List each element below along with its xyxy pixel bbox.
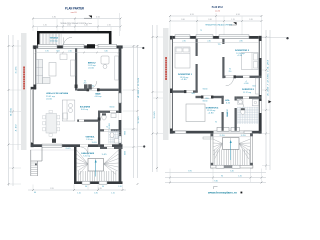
- door swing baie2: [237, 101, 244, 108]
- svg-text:DORMITOR 4: DORMITOR 4: [206, 107, 219, 110]
- svg-text:3.95: 3.95: [188, 170, 192, 172]
- bottom cyan dims under stair left plan: [34, 186, 122, 195]
- stair bay bottom wall right plan: [211, 165, 253, 168]
- svg-text:3.30 / 2.05 / 4.20: 3.30 / 2.05 / 4.20: [268, 60, 270, 96]
- desk birou: [101, 56, 109, 69]
- svg-text:80/210: 80/210: [110, 107, 115, 109]
- top dimension line row 1 left plan: [32, 16, 121, 19]
- svg-text:4.10: 4.10: [16, 125, 18, 132]
- bottom dimension lines right plan: [165, 170, 266, 183]
- stair hall stub wall right plan: [203, 137, 213, 139]
- interior dim line right plan: [173, 41, 259, 43]
- stair bay left wall right plan: [211, 134, 214, 169]
- scale note right: [215, 10, 220, 12]
- stair bay right wall right plan: [250, 134, 253, 169]
- svg-text:3.25: 3.25: [16, 67, 18, 74]
- svg-text:2.80: 2.80: [239, 41, 242, 43]
- svg-text:80: 80: [206, 98, 209, 100]
- title PLAN ETAJ: [212, 5, 223, 9]
- stair bay bottom wall left plan: [74, 181, 123, 184]
- armchair living: [60, 54, 67, 60]
- title PLAN PARTER: [65, 6, 85, 10]
- bracket mark right plan: [214, 187, 218, 190]
- fireplace dark block: [52, 139, 56, 143]
- svg-text:BUCATARIE: BUCATARIE: [80, 105, 91, 108]
- svg-text:2.40: 2.40: [207, 41, 210, 43]
- middle horizontal wall band left plan: [31, 144, 123, 147]
- svg-text:60: 60: [253, 86, 256, 88]
- interior wall hall-dorm4 horizontal: [196, 96, 224, 99]
- red vertical label left plan: [23, 67, 25, 90]
- door swing dorm3: [226, 78, 234, 86]
- terrace door swing arc: [64, 37, 73, 46]
- extra cyan dims right plan: [192, 44, 256, 100]
- exterior stair left plan: [31, 147, 42, 176]
- bed dormitor1: [175, 47, 190, 68]
- label birou: [88, 62, 96, 69]
- node dot left plan: [123, 47, 145, 49]
- label dormitor1: [178, 74, 193, 81]
- svg-text:1.15: 1.15: [111, 193, 115, 195]
- label casa scarii: [81, 152, 94, 158]
- staircase right plan: [213, 138, 250, 166]
- svg-text:4.50: 4.50: [236, 14, 240, 16]
- top exterior wall right plan: [170, 35, 262, 39]
- svg-text:±0.00: ±0.00: [88, 67, 94, 69]
- hall small dims: [229, 69, 232, 74]
- interior dimension line left plan: [35, 51, 120, 54]
- svg-text:6.35: 6.35: [226, 102, 230, 104]
- svg-text:3.95: 3.95: [50, 188, 54, 190]
- label hol etaj: [225, 100, 230, 104]
- left dimension columns right plan: [152, 25, 158, 172]
- top dimension line row 2 left plan: [32, 24, 121, 27]
- svg-text:PLAN PARTER: PLAN PARTER: [65, 6, 85, 10]
- interior wall x99 vertical: [98, 111, 101, 147]
- svg-text:2.10: 2.10: [68, 51, 71, 53]
- shower baie2: [252, 99, 258, 106]
- svg-text:1.85: 1.85: [249, 19, 253, 21]
- svg-text:7.20 mp: 7.20 mp: [83, 155, 90, 157]
- svg-text:1.20: 1.20: [43, 24, 47, 26]
- toilet baie2: [241, 108, 245, 114]
- svg-text:90: 90: [221, 175, 223, 177]
- top dimension line row 2 right plan: [169, 19, 262, 22]
- annotation terasa text left plan: [60, 22, 92, 25]
- interior wall y130 horizontal: [98, 129, 119, 131]
- wardrobe birou strip: [115, 56, 119, 80]
- interior wall y111 horizontal: [98, 111, 119, 113]
- stair bay top dim right plan: [214, 135, 251, 137]
- label dormitor3: [242, 83, 255, 94]
- svg-text:1.00: 1.00: [92, 142, 97, 144]
- svg-text:70: 70: [106, 127, 108, 129]
- svg-text:60: 60: [34, 192, 36, 194]
- door dims cyan left plan: [84, 81, 115, 129]
- svg-text:BAIE 2: BAIE 2: [226, 109, 229, 116]
- svg-text:1.45: 1.45: [102, 154, 107, 156]
- tiled floor bath left plan: [109, 130, 121, 144]
- svg-text:90: 90: [102, 186, 104, 188]
- left gray wall band left plan: [21, 33, 27, 150]
- top dimension line row 1 right plan: [169, 14, 262, 17]
- svg-text:12.96 mp: 12.96 mp: [236, 53, 245, 55]
- svg-text:90: 90: [229, 69, 231, 71]
- wc toilet: [102, 113, 106, 120]
- interior wall dorm3-baie horizontal: [237, 96, 262, 98]
- right dimension columns right plan: [265, 30, 270, 170]
- top exterior wall left plan: [33, 46, 123, 49]
- svg-text:12.50 mp: 12.50 mp: [50, 40, 58, 42]
- landing door leafs right plan: [217, 127, 240, 131]
- tiled floor baie2: [237, 107, 259, 124]
- svg-text:90: 90: [215, 122, 217, 124]
- svg-text:1.20: 1.20: [241, 135, 246, 137]
- svg-text:1.70: 1.70: [231, 19, 235, 21]
- svg-text:+2.80: +2.80: [208, 113, 214, 115]
- exterior cyan dims right of plan: [125, 131, 127, 155]
- left gray wall band right plan: [163, 28, 169, 140]
- terrace hatch left plan: [41, 34, 61, 46]
- svg-text:90/210: 90/210: [203, 88, 208, 90]
- interior wall living-birou vertical: [75, 48, 78, 90]
- dorm3 closet: [256, 78, 259, 94]
- interior wall dorm1 bottom horizontal: [173, 90, 198, 93]
- label wc rotated: [109, 123, 111, 129]
- terrace corner block left plan: [87, 44, 95, 48]
- door dims cyan right plan: [203, 81, 247, 124]
- svg-text:+2.80: +2.80: [237, 55, 242, 57]
- left exterior wall right plan: [170, 36, 173, 134]
- window top-3 left plan: [98, 44, 117, 48]
- label dormitor2: [235, 50, 250, 57]
- bottom dimension line left plan: [28, 188, 126, 191]
- annotation terasa right plan: [200, 24, 233, 33]
- svg-text:1.85: 1.85: [94, 193, 98, 195]
- svg-text:4.40 / 2.50: 4.40 / 2.50: [138, 78, 140, 98]
- kitchen appliances dark: [84, 84, 92, 89]
- extra cyan dims left plan: [57, 51, 107, 156]
- label baie2: [226, 109, 229, 116]
- svg-text:TERASA: TERASA: [49, 37, 58, 40]
- svg-text:75: 75: [218, 44, 221, 46]
- svg-text:4.35: 4.35: [98, 188, 102, 190]
- svg-text:80: 80: [125, 151, 127, 155]
- coffee table living: [49, 63, 56, 77]
- svg-text:75: 75: [200, 30, 202, 32]
- wc sink: [111, 114, 116, 118]
- dining table: [43, 110, 60, 136]
- svg-text:90: 90: [192, 93, 195, 95]
- landing wall left plan: [100, 147, 123, 149]
- right dimension column lines left plan: [133, 45, 140, 185]
- interior wall dorm4-stairhall vertical: [221, 96, 224, 131]
- svg-text:1.20: 1.20: [118, 186, 122, 188]
- sink baie2: [238, 99, 244, 104]
- svg-text:TERASA PRINCIPALA ACOPERITA cu: TERASA PRINCIPALA ACOPERITA cu lemn: [60, 22, 92, 25]
- label vestibul: [86, 137, 96, 141]
- svg-text:3.40: 3.40: [104, 51, 107, 53]
- label living: [46, 92, 68, 100]
- svg-text:2.20: 2.20: [220, 135, 225, 137]
- interior wall hall-dorm2 vertical: [222, 39, 225, 78]
- svg-text:90: 90: [125, 131, 127, 135]
- left column rotated dims left plan: [11, 67, 18, 132]
- svg-text:scara 1:50: scara 1:50: [215, 10, 220, 12]
- label baie parter: [95, 92, 102, 98]
- staircase left plan: [77, 150, 119, 181]
- svg-text:BAIE: BAIE: [96, 92, 102, 95]
- interior wall dorm1-hall vertical: [195, 39, 198, 93]
- svg-text:scara 1:50: scara 1:50: [71, 11, 77, 14]
- svg-text:210: 210: [84, 83, 87, 85]
- svg-text:3.40: 3.40: [230, 170, 234, 172]
- window top-2 left plan: [63, 44, 84, 48]
- svg-text:CASA SCARII: CASA SCARII: [81, 152, 94, 155]
- svg-text:www.homeplans.ro: www.homeplans.ro: [208, 193, 238, 195]
- red vertical label right plan: [165, 57, 167, 80]
- svg-text:2.20: 2.20: [109, 123, 111, 129]
- label bucatarie: [80, 105, 91, 111]
- svg-text:+2.80: +2.80: [181, 79, 187, 81]
- svg-text:1.90: 1.90: [45, 51, 48, 53]
- extension lines left plan: [9, 13, 138, 190]
- svg-text:90: 90: [84, 81, 86, 83]
- right side arrow marker right plan: [268, 100, 271, 103]
- right exterior wall right plan: [259, 36, 262, 134]
- window top-1 left plan: [38, 44, 57, 48]
- svg-text:TERASA PRINCIPALA ACOPERITA: TERASA PRINCIPALA ACOPERITA: [205, 24, 233, 27]
- door swing birou: [89, 81, 97, 89]
- stair bay right wall left plan: [0, 0, 1, 1]
- left exterior wall upper left plan: [34, 46, 37, 90]
- svg-text:+2: +2: [245, 81, 247, 83]
- svg-text:PLAN ETAJ: PLAN ETAJ: [212, 5, 223, 9]
- svg-text:1.20: 1.20: [238, 175, 242, 177]
- website label: [208, 192, 242, 195]
- svg-text:4.60 mp: 4.60 mp: [95, 96, 102, 98]
- svg-text:3.30: 3.30: [138, 117, 140, 124]
- right side arrow marker left plan: [138, 145, 146, 147]
- bath fixtures left plan: [110, 132, 119, 143]
- interior wall hol-baie vertical: [234, 96, 237, 130]
- node dot right plan: [262, 37, 289, 39]
- svg-text:3.60: 3.60: [154, 112, 156, 119]
- kitchen counter: [62, 100, 75, 121]
- interior wall y90 horizontal: [77, 88, 118, 91]
- sofa corner piece living: [43, 78, 50, 84]
- svg-text:2.35: 2.35: [182, 41, 185, 43]
- svg-text:4.55: 4.55: [190, 14, 194, 16]
- svg-text:90: 90: [85, 186, 87, 188]
- interior wall kitchen bottom horizontal: [77, 120, 99, 122]
- bed dormitor2: [242, 53, 259, 70]
- stair bay left wall left plan: [74, 147, 77, 184]
- svg-text:1.10: 1.10: [77, 193, 81, 195]
- entrance door swing left plan: [80, 147, 88, 155]
- section marker left plan: [84, 16, 92, 19]
- section marker right plan: [229, 22, 237, 25]
- svg-text:11.12 mp: 11.12 mp: [243, 92, 251, 94]
- svg-text:2.60: 2.60: [208, 19, 212, 21]
- label dormitor4: [206, 107, 219, 115]
- svg-text:60: 60: [57, 51, 60, 53]
- svg-text:210: 210: [229, 71, 232, 73]
- svg-text:2.60: 2.60: [181, 19, 185, 21]
- svg-text:9.85: 9.85: [11, 108, 13, 116]
- svg-text:2.05: 2.05: [66, 148, 71, 150]
- bottom exterior wall right plan: [170, 131, 262, 134]
- svg-text:80/210: 80/210: [203, 100, 208, 102]
- interior wall dorm2-dorm3 horizontal: [225, 75, 262, 78]
- left exterior wall lower left plan: [31, 87, 36, 147]
- sofa living: [36, 60, 42, 84]
- rug dormitor4: [186, 104, 205, 122]
- svg-text:+2.80: +2.80: [244, 83, 249, 85]
- svg-text:8.00 mp: 8.00 mp: [81, 109, 88, 111]
- right exterior wall left plan: [118, 46, 121, 184]
- svg-text:3.10 mp: 3.10 mp: [86, 139, 93, 141]
- terrace walls black band left plan: [37, 31, 112, 46]
- svg-text:2.10: 2.10: [107, 24, 111, 26]
- svg-text:9.40: 9.40: [214, 181, 218, 183]
- svg-text:4.55: 4.55: [96, 16, 100, 18]
- svg-text:5.30: 5.30: [52, 16, 56, 18]
- svg-text:LIVING+LOC DE LUAT MASA: LIVING+LOC DE LUAT MASA: [46, 92, 68, 95]
- svg-text:80: 80: [92, 86, 94, 88]
- left dimension column lines left plan: [8, 35, 18, 186]
- scale note left: [71, 11, 77, 14]
- extension lines right plan: [153, 13, 270, 182]
- tv cabinet living: [71, 60, 76, 76]
- terrace label: [49, 37, 58, 43]
- svg-text:±0.00: ±0.00: [46, 99, 52, 101]
